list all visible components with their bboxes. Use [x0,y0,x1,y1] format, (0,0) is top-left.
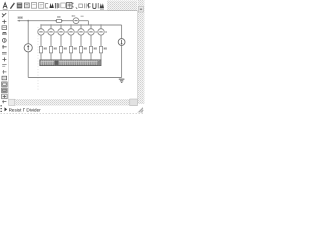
wire: bus feeding resistor column array [41,24,88,26]
svg-text:Divider: Divider [26,108,41,113]
label SW1 [57,16,61,18]
wire: jog down at right of top net [88,21,121,25]
bottom scrollbar [9,99,138,106]
resistive bar element [40,60,101,66]
right scrollbar [138,0,145,104]
component box SW1 on top net [57,19,62,22]
resistor column 7 [98,24,107,60]
label for source start [18,16,23,18]
page-break dashed line [37,27,39,90]
toolbar separator [0,10,138,12]
top-right textured panel [107,1,137,11]
ammeter A2 on right branch [118,39,125,46]
window background [0,0,145,120]
status tab bar [0,105,144,113]
resistor column 3 [58,24,67,60]
wire: left branch vertical [27,21,29,78]
resistor column 6 [88,24,97,60]
ammeter A1 on top net [73,18,79,24]
wire: bottom return net [28,77,121,79]
label A1 [72,15,76,17]
ground [119,79,125,83]
resistor column 1 [38,24,47,60]
current source I0 on left branch [24,44,32,52]
resistor column 4 [68,24,77,60]
wire: right branch vertical [121,25,123,78]
node junction at left branch [27,20,29,22]
top toolbar icons [3,2,104,9]
svg-text:Resist: Resist [9,108,22,113]
resistor column 2 [48,24,57,60]
wire: top net from source start to right jog [18,20,89,22]
resistor column 5 [78,24,87,60]
wire start arrow terminal [17,20,20,22]
left toolbar icons [2,13,8,103]
